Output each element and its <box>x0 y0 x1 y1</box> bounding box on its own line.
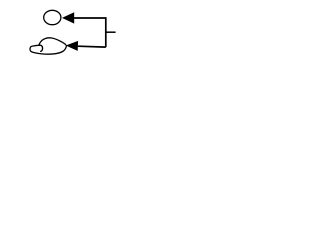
wire from junction to node B arrow <box>78 45 106 48</box>
arrowhead to node A <box>62 12 74 23</box>
wire from junction to node A arrow <box>74 17 106 19</box>
node B (sketchy ellipse) <box>30 38 66 54</box>
arrowhead to node B <box>66 41 78 51</box>
output stub wire <box>106 31 116 33</box>
vertical junction bar <box>105 17 107 47</box>
node A (circle) <box>44 10 61 24</box>
